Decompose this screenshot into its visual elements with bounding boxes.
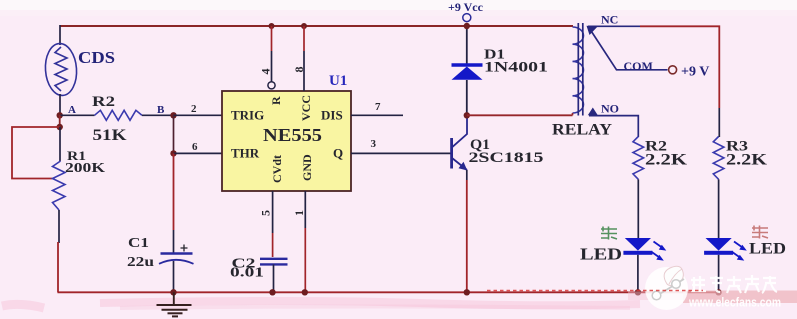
svg-text:LED: LED (580, 245, 622, 264)
svg-text:CDS: CDS (78, 48, 115, 67)
svg-text:0.01: 0.01 (230, 266, 264, 281)
wire: junction to relay coil bottom (467, 114, 573, 116)
COM terminal circle (669, 66, 677, 74)
wire: CDS bottom to node A (59, 94, 61, 116)
svg-text:6: 6 (192, 141, 198, 153)
svg-text:COM: COM (624, 59, 653, 73)
transistor Q1 2SC1815 (452, 116, 544, 171)
node A (57, 104, 77, 119)
svg-text:NC: NC (601, 13, 618, 27)
capacitor C2 0.01 (230, 257, 288, 296)
red dashed marker line (487, 290, 703, 292)
LED green (623, 238, 666, 295)
resistor R2 2.2K (633, 137, 688, 239)
svg-text:Q: Q (333, 146, 343, 161)
svg-text:DIS: DIS (321, 108, 343, 123)
svg-text:2.2K: 2.2K (645, 152, 688, 169)
wire: node B down to THR junction (173, 115, 175, 153)
svg-text:22u: 22u (127, 255, 154, 270)
+9 Vcc terminal (448, 0, 484, 29)
svg-text:LED: LED (749, 241, 786, 258)
pin 4 reset (with bubble) (259, 23, 276, 89)
svg-text:VCC: VCC (299, 95, 313, 121)
relay contact NO (588, 102, 639, 138)
svg-text:www.elecfans.com: www.elecfans.com (688, 295, 781, 310)
wire: THR junction to pin 6 (174, 141, 223, 153)
svg-text:2.2K: 2.2K (726, 152, 768, 169)
wire: bottom ground rail (58, 291, 720, 293)
svg-text:C1: C1 (128, 236, 149, 251)
svg-text:NO: NO (601, 102, 619, 116)
svg-text:THR: THR (231, 146, 260, 161)
IC U1 NE555 (222, 73, 351, 191)
svg-text:7: 7 (375, 101, 381, 113)
svg-text:1: 1 (292, 210, 306, 216)
pin 5 CVdt (259, 191, 273, 257)
resistor R3 2.2K (713, 137, 767, 239)
pin 8 VCC (292, 23, 307, 91)
LED red (704, 238, 747, 295)
relay coil (573, 27, 584, 115)
wire: top +9Vcc rail (60, 25, 573, 27)
svg-text:3: 3 (371, 138, 377, 150)
wire: pin 3 Q output to Q1 base (351, 138, 451, 153)
svg-text:CVdt: CVdt (270, 155, 284, 183)
svg-text:8: 8 (292, 67, 306, 73)
svg-text:U1: U1 (329, 73, 347, 89)
svg-text:TRIG: TRIG (231, 108, 264, 123)
svg-text:B: B (157, 104, 165, 116)
svg-text:R: R (269, 96, 283, 105)
svg-text:4: 4 (259, 69, 273, 75)
wire: left vertical from top rail to CDS (59, 25, 61, 45)
svg-text:+9 Vcc: +9 Vcc (448, 0, 484, 14)
resistor R2 51K (60, 94, 174, 144)
svg-text:NE555: NE555 (263, 125, 322, 145)
svg-text:A: A (68, 104, 76, 116)
resistor R1 200K (53, 127, 106, 292)
svg-text:2SC1815: 2SC1815 (469, 150, 544, 166)
wire: node B to TRIG pin 2 (174, 103, 223, 115)
wire: bracket from node A around R1 (wiper) (12, 115, 63, 179)
svg-text:2: 2 (191, 103, 197, 115)
photoresistor CDS (44, 42, 79, 96)
label red LED (749, 226, 786, 258)
wire: NC to R3 top right corner (640, 26, 719, 108)
node B (157, 104, 177, 119)
watermark elecfans (628, 266, 797, 310)
wire: node B line down to C1 (173, 153, 175, 230)
svg-text:R2: R2 (92, 94, 115, 110)
svg-text:200K: 200K (65, 161, 105, 176)
diode D1 1N4001 (452, 26, 549, 114)
ground (157, 292, 192, 316)
pin 7 DIS stub (351, 101, 403, 115)
svg-text:51K: 51K (93, 127, 128, 144)
svg-text:5: 5 (259, 210, 273, 216)
node: D1 / collector junction (464, 112, 470, 118)
label green LED (580, 227, 622, 264)
capacitor C1 22u (polarized) (127, 236, 194, 295)
wire: emitter down to bottom rail (464, 170, 470, 295)
svg-text:+9 V: +9 V (681, 65, 709, 80)
relay switch arm to COM (590, 29, 668, 74)
svg-text:1N4001: 1N4001 (484, 60, 548, 76)
svg-text:RELAY: RELAY (552, 122, 612, 139)
node: THR junction (170, 150, 176, 156)
svg-text:GND: GND (300, 154, 314, 181)
relay contact NC (587, 13, 641, 36)
pin 1 GND (292, 191, 308, 295)
relay core (578, 23, 583, 116)
